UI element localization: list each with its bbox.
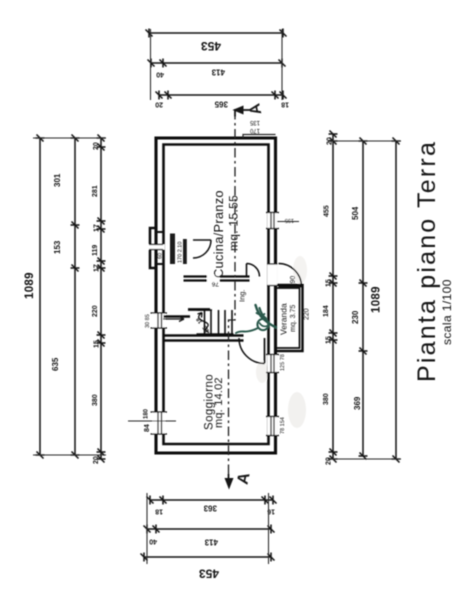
stair treads: [197, 310, 234, 334]
svg-text:20: 20: [93, 456, 100, 464]
svg-text:25: 25: [202, 324, 211, 333]
interior wall C ingresso/cucina: [184, 277, 250, 281]
svg-text:365: 365: [214, 100, 228, 109]
svg-text:scala 1/100: scala 1/100: [440, 279, 454, 345]
dim chain left inner line: [150, 499, 273, 501]
dim chain right mid ticks: [148, 59, 286, 68]
svg-text:15: 15: [326, 279, 333, 287]
dim chain top mid line: [74, 138, 76, 455]
stair hand arrow squiggle: [198, 313, 210, 333]
svg-text:1089: 1089: [371, 286, 383, 313]
bump-out inner line: [156, 232, 164, 264]
dim chain top inner ticks: [97, 135, 106, 463]
svg-text:413: 413: [211, 68, 225, 77]
dim chain left outer line: [144, 556, 271, 558]
svg-text:78 154: 78 154: [280, 417, 286, 434]
svg-text:504: 504: [351, 206, 360, 220]
svg-text:153: 153: [53, 240, 62, 254]
svg-text:119: 119: [92, 245, 99, 256]
dim chain right inner line: [159, 94, 283, 96]
window W3 bottom wall soggiorno left: [266, 417, 279, 436]
svg-text:17: 17: [94, 224, 101, 232]
svg-text:380: 380: [323, 393, 330, 405]
dim chain right outer ticks: [146, 29, 287, 38]
paper smudge 1: [288, 392, 306, 428]
section arrow right: [235, 109, 250, 117]
window slot in bump: [148, 245, 165, 250]
dim extension lines bottom corners: [328, 141, 401, 459]
dim extension lines right: [151, 29, 283, 100]
svg-text:17: 17: [94, 264, 101, 272]
dim chain top mid ticks: [71, 135, 80, 459]
svg-text:mq. 15.55: mq. 15.55: [227, 195, 241, 251]
dim chain top outer ticks: [36, 135, 45, 459]
svg-text:15: 15: [94, 340, 101, 348]
svg-text:76: 76: [211, 280, 219, 287]
veranda door arc: [279, 264, 302, 287]
svg-text:455: 455: [324, 205, 331, 217]
right-wall outside step (terrace edge): [243, 135, 276, 139]
svg-text:170: 170: [249, 127, 260, 133]
door gap in wall C: [207, 275, 220, 282]
svg-text:135: 135: [285, 217, 294, 223]
section arrow left: [228, 474, 230, 481]
svg-text:Pianta piano Terra: Pianta piano Terra: [413, 140, 441, 382]
dim chain bottom outer ticks: [392, 138, 401, 463]
svg-text:20: 20: [93, 142, 100, 150]
svg-text:184: 184: [323, 305, 330, 317]
dim chain right outer line: [149, 32, 283, 34]
stair side wall B: [188, 308, 210, 311]
dim chain left inner ticks: [147, 496, 277, 505]
svg-text:301: 301: [53, 173, 62, 187]
svg-text:220: 220: [304, 308, 311, 320]
dim chain right inner ticks: [156, 91, 287, 100]
dim chain left mid line: [147, 528, 271, 530]
bagno wall bar upper: [170, 234, 175, 265]
entry arrow at window W2: [163, 317, 184, 322]
svg-text:413: 413: [204, 538, 218, 547]
svg-text:mq. 3.75: mq. 3.75: [290, 305, 297, 332]
svg-text:230: 230: [351, 310, 360, 324]
dim chain bottom mid ticks: [359, 138, 368, 460]
svg-text:30 85: 30 85: [145, 314, 151, 328]
veranda outline: [276, 285, 303, 351]
svg-text:453: 453: [199, 567, 219, 581]
dim chain bottom inner ticks: [329, 131, 338, 463]
svg-text:453: 453: [201, 39, 221, 53]
interior wall A soggiorno divider: [163, 336, 244, 341]
dim chain top outer 1089 line: [39, 138, 41, 455]
svg-text:15: 15: [326, 336, 333, 344]
svg-text:363: 363: [203, 504, 217, 513]
paper smudge 3: [293, 256, 307, 284]
svg-text:380: 380: [92, 394, 99, 406]
dim chain bottom inner line: [332, 134, 334, 459]
dim chain bottom mid line: [362, 141, 364, 456]
wall outer outline: [156, 138, 276, 453]
veranda door leaf: [279, 286, 302, 288]
window W5 bottom wall cucina: [266, 213, 299, 229]
soggiorno door D1 leaf: [264, 338, 266, 364]
svg-text:220: 220: [92, 305, 99, 317]
veranda door jambs: [267, 264, 278, 286]
SECTION LINE A-A: [229, 109, 236, 474]
svg-text:1089: 1089: [24, 272, 36, 299]
svg-text:mq. 14.02: mq. 14.02: [213, 377, 225, 428]
dim chain left mid ticks: [144, 525, 275, 534]
svg-text:180: 180: [144, 408, 150, 419]
svg-text:20: 20: [326, 457, 333, 465]
svg-text:A: A: [234, 471, 253, 486]
window W4 bottom wall soggiorno right: [266, 355, 279, 373]
wall inner outline: [164, 145, 269, 445]
dim chain top inner line: [100, 138, 102, 459]
svg-text:Ing.: Ing.: [238, 289, 247, 302]
green annotation scribble: [236, 305, 276, 333]
svg-text:60: 60: [158, 253, 164, 259]
dim chain right mid line: [151, 62, 282, 64]
veranda door opening in bottom wall: [268, 264, 278, 286]
svg-text:40: 40: [156, 71, 164, 78]
soggiorno door D1 arc: [239, 338, 265, 364]
svg-text:18: 18: [196, 316, 204, 324]
paper smudge 2: [256, 361, 268, 383]
dim chain bottom outer line: [395, 141, 397, 459]
svg-text:A: A: [246, 102, 265, 116]
window W1 top wall soggiorno: [128, 412, 176, 434]
svg-text:170 2.10: 170 2.10: [178, 242, 184, 263]
svg-text:20: 20: [155, 101, 163, 108]
svg-text:135: 135: [249, 119, 260, 125]
svg-text:Veranda: Veranda: [279, 303, 289, 335]
svg-text:369: 369: [353, 396, 362, 410]
ingresso door leaf: [246, 264, 248, 277]
dim chain left outer ticks: [141, 553, 275, 562]
svg-text:18: 18: [281, 101, 289, 108]
svg-text:40: 40: [149, 538, 157, 545]
dim extension lines left: [147, 493, 269, 564]
svg-text:84: 84: [144, 424, 151, 432]
svg-text:125 78: 125 78: [280, 354, 286, 371]
svg-text:90: 90: [290, 276, 297, 284]
svg-text:Cucina/Pranzo: Cucina/Pranzo: [211, 190, 226, 278]
dim extension lines top corners: [33, 138, 106, 455]
veranda inner line: [276, 288, 300, 348]
bagno wall bar lower: [183, 239, 187, 264]
bagno door leaf: [193, 239, 211, 241]
bagno door arc: [193, 240, 211, 258]
svg-text:281: 281: [92, 185, 99, 197]
svg-text:635: 635: [51, 357, 60, 371]
window W2 top wall entry: [151, 313, 168, 328]
svg-text:18: 18: [155, 508, 163, 515]
bump-out top wall (closet niche): [150, 228, 156, 268]
ingresso door arc: [247, 264, 260, 277]
stair wall stub: [164, 315, 191, 318]
